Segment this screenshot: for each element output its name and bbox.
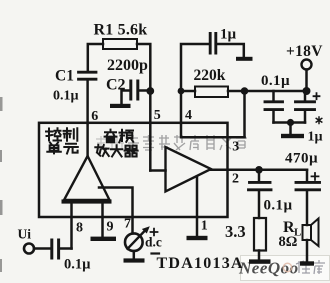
watermark NeeQoo script [238,259,299,278]
svg-text:+18V: +18V [286,43,323,60]
ground bar zobel [249,259,271,263]
ground bar decoupling [281,134,304,138]
plus mark 1u* [314,93,320,99]
svg-text:0.1µ: 0.1µ [53,89,79,104]
resistor 220k [195,87,228,98]
wire output to 470u cap [306,170,309,182]
svg-text:0.1µ: 0.1µ [261,73,290,89]
watermark logo box bottom-right [241,256,330,281]
wire 220k left to node B [181,90,195,93]
svg-text:d.c: d.c [145,235,162,250]
svg-text:4: 4 [185,108,192,123]
wire pin 9 [101,202,104,237]
wire pin3 horizontal into IC to pin4 [181,123,245,137]
wire 1u* bottom [304,111,307,123]
node F (output / zobel junction) [255,166,263,174]
ground bar under C2 [110,104,131,108]
wire node B down to pin 4 [180,91,183,123]
ground bar for 1u cap [236,57,253,61]
wire input cap to pin 8 [60,247,72,250]
wire speaker to ground [306,240,309,262]
svg-text:3: 3 [232,140,239,155]
watermark row 杭州格睿科技有限公司 (gray) [96,136,124,150]
speaker RL [303,219,319,247]
wire pot bottom [133,251,136,259]
svg-text:R1 5.6k: R1 5.6k [94,22,148,39]
ground bar speaker [300,261,314,265]
wire pin6 into control apex [86,123,89,157]
capacitor 1u top [210,34,216,54]
wire node A down to pin 5 into IC [149,91,152,171]
wire +18V terminal to rail [305,70,308,92]
svg-text:1µ: 1µ [308,130,323,145]
svg-text:7: 7 [124,217,131,232]
wire pin5 to audio amp input [150,169,165,172]
chinese label 放大器 [95,145,137,157]
svg-text:TDA1013A: TDA1013A [157,255,244,272]
ground bar pin 1 [187,236,208,240]
wire output pin 2 [211,169,307,172]
node B (1u/220k/pin4) [178,88,185,95]
plus mark 470u [312,173,319,180]
svg-text:2: 2 [232,172,239,187]
resistor 3.3 [254,218,266,251]
svg-text:8: 8 [76,221,83,236]
chinese label 音频 [105,130,134,143]
IC box U1 [39,123,228,217]
wire rail to 0.1u decoupling cap [272,91,275,101]
watermark 维库 [296,260,325,274]
input terminal Ui [24,244,34,254]
node C (220k right / pin3 riser) [241,87,249,95]
svg-text:1µ: 1µ [220,27,237,43]
capacitor C1 [79,72,97,79]
resistor R1 [103,39,137,49]
wire C1 bottom to pin 6 [86,81,89,123]
ground bar pin 9 [91,237,117,241]
op-amp audio amplifier triangle [166,147,212,192]
capacitor 0.1u zobel [249,182,272,189]
wire C2 left plate down [122,91,131,105]
wire pin3 riser down [243,91,246,137]
wire R1 left to C1 top [88,44,103,71]
node D (+18V rail) [303,87,311,95]
star mark [316,117,322,124]
node E (decoupling ground junction) [287,119,294,126]
svg-text:0.1µ: 0.1µ [264,198,293,214]
capacitor 0.1u input [52,240,59,258]
wire pin 8 [70,202,73,249]
wire control output step to pin7 [99,188,133,234]
capacitor 470u [296,182,320,189]
wire 1u left plate to pin4 rail [181,44,208,91]
wire Ui to input cap [34,247,50,250]
potentiometer d.c volume [125,226,150,251]
svg-text:220k: 220k [194,67,226,84]
wire node E to ground [289,123,292,135]
chinese label 单元 [47,143,78,154]
wire 470u to speaker [306,191,309,225]
wire pin 1 from triangle to ground [196,177,199,237]
wire R1 right down to C2 node [137,44,150,89]
svg-text:1: 1 [201,219,208,234]
capacitor 0.1u decoupling [265,102,283,110]
plus mark pot [151,229,158,236]
bar under pot [124,258,145,262]
svg-text:9: 9 [107,220,114,235]
wire rail to 1u* cap [304,91,307,101]
wire C2 right plate to node [139,89,150,92]
svg-text:0.1µ: 0.1µ [64,257,91,273]
svg-text:3.3: 3.3 [225,222,246,241]
wire 1u right plate to ground [218,44,244,57]
capacitor C2 [131,81,138,99]
svg-text:5: 5 [154,108,161,123]
wire node F down to zobel cap [258,170,261,182]
svg-text:C1: C1 [55,68,74,85]
wire 3.3 to ground [258,251,261,260]
scan smudge left edge [0,97,3,272]
+18V terminal [302,60,312,70]
capacitor 1u* electrolytic [296,102,315,110]
wire 220k right to +18V rail [228,90,307,93]
node A (C2/R1/pin5) [146,87,154,95]
svg-text:2200p: 2200p [107,57,148,74]
wire 0.1u cap bottom [272,111,275,123]
op-amp control unit triangle [62,156,112,204]
chinese label 控制 [46,128,77,141]
wire zobel cap to resistor [258,191,261,218]
svg-text:470µ: 470µ [285,151,318,167]
svg-text:8Ω: 8Ω [279,234,298,250]
minus tick [152,252,160,254]
wire joining cap bottoms [274,121,306,124]
svg-text:Ui: Ui [18,227,32,242]
